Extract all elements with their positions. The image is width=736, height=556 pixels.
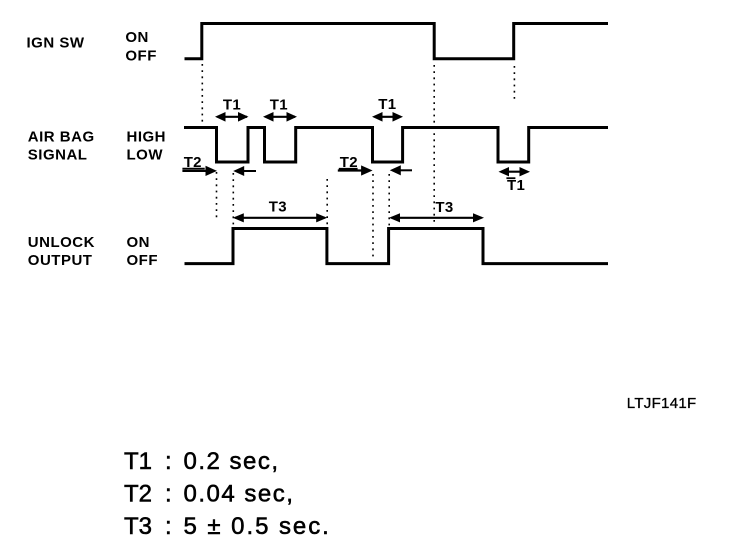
svg-text:T1: T1 xyxy=(124,448,152,475)
dotted line at unlock rise 1 x=233.3 xyxy=(232,173,234,227)
svg-text:LTJF141F: LTJF141F xyxy=(627,395,697,412)
arrow T2 first (points right to air bag fall 1) xyxy=(182,166,217,176)
svg-text:IGN SW: IGN SW xyxy=(27,34,85,51)
arrow T1 second pulse xyxy=(263,112,297,122)
underline of T2 second xyxy=(339,168,358,170)
dotted line at IGN OFF edge x=434 xyxy=(433,65,435,226)
underline of T2 first xyxy=(182,168,204,170)
svg-text:5 ± 0.5 sec.: 5 ± 0.5 sec. xyxy=(184,513,331,540)
svg-text:T1: T1 xyxy=(507,177,525,194)
svg-text:T1: T1 xyxy=(378,96,396,113)
svg-text:0.04 sec,: 0.04 sec, xyxy=(184,480,295,507)
dotted line at unlock rise 2 x=389.2 xyxy=(388,174,390,226)
svg-text::: : xyxy=(165,480,173,507)
svg-text:T2: T2 xyxy=(124,480,152,507)
waveform AIR BAG SIGNAL xyxy=(184,128,608,163)
svg-text:T1: T1 xyxy=(223,97,241,114)
svg-text:AIR BAG: AIR BAG xyxy=(28,129,95,146)
dotted line at unlock fall 1 x=327.2 xyxy=(326,179,328,225)
svg-text::: : xyxy=(165,513,173,540)
arrow to unlock rise 2 (points left) xyxy=(390,165,412,175)
arrow to unlock rise 1 (points left) xyxy=(233,166,256,176)
arrow T2 second (points right to air bag fall 3) xyxy=(338,165,373,175)
svg-text:UNLOCK: UNLOCK xyxy=(28,234,95,251)
dash above T1 fourth label xyxy=(506,177,515,179)
arrow T3 first xyxy=(233,213,327,222)
arrow T3 second xyxy=(389,213,484,222)
svg-text:T3: T3 xyxy=(269,198,287,215)
dotted line at IGN ON edge 2 x=514 xyxy=(513,66,515,101)
svg-text:LOW: LOW xyxy=(127,147,164,164)
svg-text:SIGNAL: SIGNAL xyxy=(28,147,88,164)
svg-text:OFF: OFF xyxy=(125,47,156,64)
svg-text:HIGH: HIGH xyxy=(127,129,167,146)
dotted line at IGN ON edge x=202 xyxy=(201,64,203,126)
arrow T1 third pulse xyxy=(372,112,403,122)
arrow T1 fourth pulse xyxy=(499,167,531,176)
svg-text:T3: T3 xyxy=(124,513,152,540)
dotted line at air bag fall 3 x=373 xyxy=(372,174,374,260)
svg-text:ON: ON xyxy=(125,29,148,46)
svg-text:0.2 sec,: 0.2 sec, xyxy=(184,448,280,475)
arrow T1 first pulse xyxy=(215,112,249,122)
svg-text:T3: T3 xyxy=(435,199,453,216)
svg-text:OFF: OFF xyxy=(127,252,159,269)
svg-text:T1: T1 xyxy=(270,97,288,114)
waveform IGN SW xyxy=(185,24,609,59)
svg-text:ON: ON xyxy=(127,234,151,251)
svg-text::: : xyxy=(165,448,173,475)
dotted line at air bag fall 1 x=216.5 xyxy=(216,172,218,221)
waveform UNLOCK OUTPUT xyxy=(185,229,609,264)
svg-text:OUTPUT: OUTPUT xyxy=(28,252,93,269)
